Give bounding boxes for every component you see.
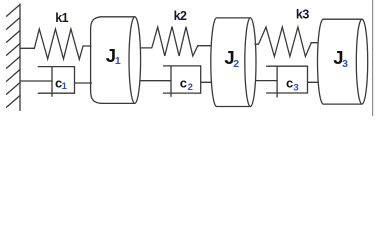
value label c2 [180, 76, 193, 94]
value label J3 [333, 47, 348, 70]
right page border line [372, 0, 374, 116]
inertia cylinder J2 [211, 18, 256, 107]
J2 bottom edge [217, 106, 251, 108]
J1 top edge [101, 16, 135, 18]
svg-text:1: 1 [62, 81, 68, 92]
c1 piston plate [51, 67, 53, 97]
J2 top edge [217, 17, 251, 19]
svg-text:k2: k2 [174, 9, 187, 23]
spring k1 (wall to J1, with lead wires) [20, 29, 91, 59]
wall hatching [7, 5, 21, 108]
c3 cup bottom wall [267, 92, 308, 94]
J3 left end cap [317, 19, 323, 104]
spring k3 (J2 to J3, with lead wires) [255, 27, 318, 57]
J1 left end cap [91, 17, 102, 104]
c2 cup right wall [200, 66, 202, 93]
c3 piston plate [276, 66, 278, 97]
svg-text:k3: k3 [296, 8, 309, 22]
c3 cup right wall [307, 66, 309, 93]
wire c1 to J1 [75, 82, 92, 84]
J2 right end ellipse [245, 18, 256, 107]
J3 bottom edge [323, 103, 362, 105]
fixed wall line [19, 4, 21, 110]
svg-text:1: 1 [115, 55, 121, 67]
value label J1 [106, 45, 121, 67]
damper c3 body [267, 66, 308, 97]
J1 bottom edge [101, 102, 135, 104]
damper c2 body [164, 66, 201, 97]
J3 right end ellipse [356, 19, 367, 104]
svg-text:3: 3 [293, 83, 298, 94]
svg-text:c: c [180, 76, 187, 91]
svg-text:2: 2 [188, 82, 193, 93]
svg-text:2: 2 [233, 58, 239, 70]
c1 cup top wall [38, 66, 74, 68]
c3 cup top wall [267, 65, 308, 67]
damper c1 body [38, 67, 74, 97]
wire wall to c1 piston rod [20, 80, 52, 82]
wire J2 to c3 piston rod [256, 80, 277, 82]
c2 cup bottom wall [164, 92, 201, 94]
c2 piston plate [170, 66, 172, 97]
svg-text:k1: k1 [55, 11, 68, 25]
inertia cylinder J1 [91, 17, 141, 104]
c1 cup bottom wall [38, 92, 74, 94]
c1 cup right wall [74, 67, 76, 94]
wire c3 to J3 [308, 81, 319, 83]
spring k2 (J1 to J2, with lead wires) [141, 27, 210, 57]
inertia cylinder J3 [317, 19, 367, 104]
J3 top edge [323, 18, 362, 20]
value label c3 [286, 76, 299, 94]
value label c1 [55, 76, 68, 92]
wire J1 to c2 piston rod [140, 80, 171, 82]
wire c2 to J2 [201, 81, 212, 83]
svg-text:c: c [286, 76, 293, 91]
svg-text:3: 3 [342, 58, 348, 70]
J2 left end cap [211, 18, 217, 107]
c2 cup top wall [164, 65, 201, 67]
value label J2 [224, 47, 239, 70]
J1 right end ellipse [129, 17, 141, 104]
